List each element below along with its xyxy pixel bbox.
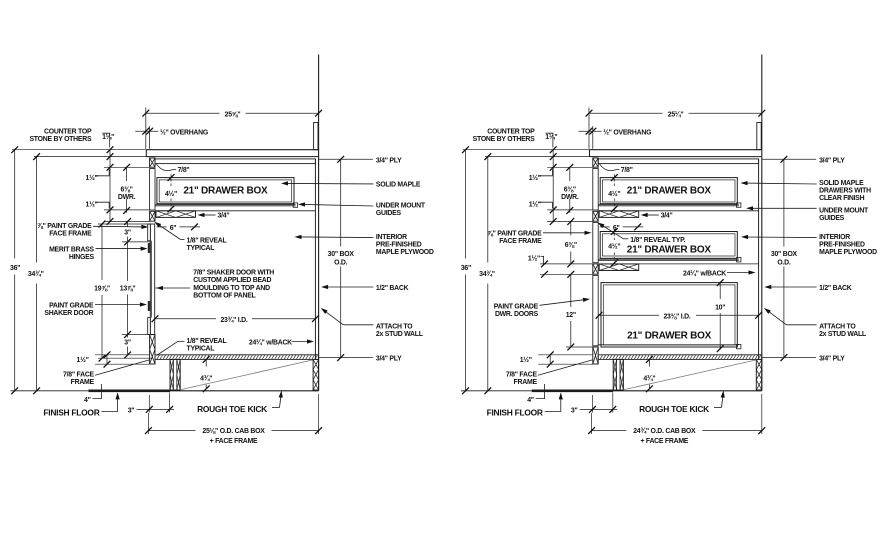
svg-text:MAPLE PLYWOOD: MAPLE PLYWOOD (819, 249, 877, 256)
svg-text:FINISH FLOOR: FINISH FLOOR (487, 407, 543, 417)
right dim: 6" stretcher depth (600, 226, 610, 228)
left dim: 13-7/8" panel dimension line (127, 242, 129, 281)
svg-text:7/8": 7/8" (178, 167, 190, 174)
svg-text:BOTTOM OF PANEL: BOTTOM OF PANEL (193, 293, 255, 300)
svg-text:GUIDES: GUIDES (819, 215, 845, 222)
left cabinet: toe kick front board (170, 359, 180, 390)
svg-text:½" OVERHANG: ½" OVERHANG (603, 129, 651, 137)
svg-text:PRE-FINISHED: PRE-FINISHED (376, 242, 422, 249)
right dim: extension line below top rail (547, 166, 593, 168)
svg-text:FACE FRAME: FACE FRAME (499, 238, 542, 245)
right dim: stack line with ticks (counter/rail heights) (552, 149, 554, 223)
left dim: 23-3/4" I.D. dimension (155, 318, 216, 320)
right dim: 4-3/4" rough toe kick height (648, 359, 650, 366)
left cabinet: door bead moulding bottom block (148, 318, 151, 335)
right cabinet: drawer box 2 under mount guide (598, 258, 739, 260)
svg-text:FRAME: FRAME (514, 379, 538, 386)
right dim: 12" drawer face 3 dimension (570, 274, 572, 307)
svg-text:4½": 4½" (608, 243, 620, 251)
svg-text:PRE-FINISHED: PRE-FINISHED (819, 242, 865, 249)
svg-text:30" BOX: 30" BOX (771, 251, 798, 258)
right cabinet: dust shelf line 1 (598, 210, 758, 212)
svg-text:DWR.: DWR. (561, 194, 579, 201)
svg-text:COUNTER TOP: COUNTER TOP (487, 128, 535, 135)
right cabinet: face frame mid rail (593, 211, 598, 221)
left cabinet: dust shelf line 1 (155, 210, 315, 212)
right cabinet: 6" stretcher 2 with cross bracing (599, 264, 639, 271)
left dim: 1/2" overhang ticks and label (135, 130, 158, 132)
svg-text:+ FACE FRAME: + FACE FRAME (640, 438, 688, 445)
svg-text:GUIDES: GUIDES (376, 210, 402, 217)
left dim: 4-3/4" rough toe kick height (205, 359, 207, 366)
left cabinet: shaker door slab (150, 224, 154, 335)
left dim: 6-3/8" drawer face dimension line (126, 166, 128, 181)
svg-text:4½": 4½" (608, 190, 620, 198)
svg-text:1½": 1½" (529, 200, 541, 208)
svg-text:6": 6" (170, 225, 177, 232)
right dim: extension line face 3 bottom (566, 346, 593, 348)
left cabinet: toe kick rear board (313, 359, 319, 390)
svg-text:36": 36" (461, 265, 471, 272)
left cabinet: drawer box 1 (21") outer (157, 178, 294, 204)
svg-text:3": 3" (571, 407, 578, 414)
left cabinet: finish floor line (11, 390, 89, 392)
svg-text:ATTACH TO: ATTACH TO (819, 323, 856, 330)
left cabinet: drawer box 1 inner wall lines (159, 180, 292, 202)
left cabinet: guide 1 end block (293, 203, 297, 207)
svg-text:1/8" REVEAL: 1/8" REVEAL (187, 338, 227, 345)
left cabinet: counter top slab (146, 150, 318, 157)
left dim: extension line below mid rail (104, 221, 150, 223)
right dim: 25¼" overall width dimension line (589, 112, 663, 114)
svg-text:1½": 1½" (528, 254, 540, 262)
left cabinet: drawer face 1 (inset) (150, 169, 155, 211)
right cabinet: drawer box 1 (21") outer (600, 178, 737, 204)
svg-text:TYPICAL: TYPICAL (187, 245, 215, 252)
svg-text:ROUGH TOE KICK: ROUGH TOE KICK (197, 404, 267, 414)
left cabinet: door hinge block upper (148, 244, 150, 253)
svg-text:6": 6" (613, 225, 620, 232)
right label: 3/4" ply (top) leader (762, 158, 816, 160)
svg-text:STONE BY OTHERS: STONE BY OTHERS (29, 136, 92, 143)
svg-text:COUNTER TOP: COUNTER TOP (44, 128, 92, 135)
right dim: 4-1/2" drawer box 1 height (613, 174, 615, 186)
left cabinet: face frame top rail (7/8") (150, 158, 155, 167)
svg-text:3": 3" (124, 229, 131, 236)
svg-text:O.D.: O.D. (334, 259, 348, 266)
right cabinet: guide 3 end block (737, 344, 741, 348)
left dim: extension line door panel bottom (122, 334, 151, 336)
left dim: 34-3/4" height under counter (36, 157, 38, 263)
right dim: 34-3/4" height under counter (487, 157, 489, 263)
right cabinet: wall line (761, 55, 763, 391)
svg-text:12": 12" (566, 312, 576, 319)
svg-text:25⅛" O.D. CAB BOX: 25⅛" O.D. CAB BOX (202, 428, 265, 435)
right dim: extension line face frame front (overhang) (592, 126, 594, 149)
svg-text:3": 3" (124, 340, 131, 347)
left label: 7/8" face frame rail callout (156, 164, 176, 171)
svg-text:3": 3" (128, 407, 135, 414)
svg-text:PAINT GRADE: PAINT GRADE (494, 303, 539, 310)
right cabinet: drawer box 3 bottom guide (598, 344, 739, 346)
right cabinet: 1/2" back panel (758, 159, 760, 360)
svg-text:1/8" REVEAL: 1/8" REVEAL (187, 237, 227, 244)
left dim: 4-1/2" drawer box 1 height (170, 174, 172, 186)
right cabinet: drawer box 3 (21") outer (601, 283, 737, 347)
svg-text:2x STUD WALL: 2x STUD WALL (376, 331, 423, 338)
svg-text:SHAKER DOOR: SHAKER DOOR (44, 310, 93, 317)
svg-text:UNDER MOUNT: UNDER MOUNT (376, 203, 426, 210)
svg-text:4¾": 4¾" (200, 375, 212, 383)
svg-text:1¼": 1¼" (545, 133, 557, 141)
left dim: 25⅝" overall width dimension line (146, 112, 220, 114)
svg-text:CUSTOM APPLIED BEAD: CUSTOM APPLIED BEAD (193, 277, 271, 284)
svg-text:10": 10" (715, 304, 725, 311)
left dim: 6" stretcher depth (157, 226, 167, 228)
svg-text:13⅞": 13⅞" (120, 286, 136, 293)
right cabinet: face frame top rail (7/8") (593, 158, 598, 167)
left cabinet: wall line (318, 55, 320, 391)
svg-text:⅞" PAINT GRADE: ⅞" PAINT GRADE (37, 223, 92, 230)
right cabinet: face frame rail 3 (593, 264, 598, 274)
svg-text:MERIT BRASS: MERIT BRASS (49, 246, 94, 253)
svg-text:FACE FRAME: FACE FRAME (49, 231, 92, 238)
svg-text:DWR. DOORS: DWR. DOORS (495, 311, 539, 318)
left cabinet: 3/4" ply bottom (hatched) (155, 355, 319, 360)
svg-text:1/8" REVEAL TYP.: 1/8" REVEAL TYP. (630, 237, 685, 244)
svg-text:24¾" O.D. CAB BOX: 24¾" O.D. CAB BOX (633, 427, 696, 435)
left dim: 3" lower rail dimension (127, 335, 129, 338)
svg-text:6⅜": 6⅜" (121, 186, 133, 193)
svg-text:4¾": 4¾" (643, 375, 655, 383)
left cabinet: door hinge block lower (148, 302, 150, 311)
right dim: 6-3/8" drawer face dimension line (569, 166, 571, 181)
svg-text:1½": 1½" (86, 200, 98, 208)
svg-text:½" OVERHANG: ½" OVERHANG (160, 129, 208, 137)
svg-text:3/4": 3/4" (218, 213, 230, 220)
svg-text:3/4" PLY: 3/4" PLY (819, 355, 845, 362)
right cabinet: toe kick rear board (756, 359, 762, 390)
svg-text:7/8" FACE: 7/8" FACE (63, 372, 95, 379)
right dim: 10" drawer box 3 height (719, 283, 721, 299)
right dim: extension line counter left edge (588, 108, 590, 149)
svg-text:⅞" PAINT GRADE: ⅞" PAINT GRADE (487, 230, 542, 237)
svg-text:30" BOX: 30" BOX (328, 251, 355, 258)
svg-text:+ FACE FRAME: + FACE FRAME (210, 438, 258, 445)
right dim: extension line drawer opening bottom (547, 209, 593, 211)
right dim: 30" box O.D. vertical dimension (783, 159, 785, 246)
left dim: extension line y=156.6 to 34-3/4" dim (34, 156, 150, 158)
svg-text:1½": 1½" (520, 356, 532, 364)
right cabinet: dust shelf line 2 (598, 263, 758, 265)
svg-text:SOLID MAPLE: SOLID MAPLE (819, 180, 864, 187)
right dim: extension line y=149.7 to 36" dim (463, 149, 590, 151)
left cabinet: stone backsplash (314, 123, 318, 150)
right dim: 3" toe kick setback (592, 395, 594, 413)
svg-text:21" DRAWER BOX: 21" DRAWER BOX (183, 186, 268, 197)
right cabinet: drawer box 2 inner wall lines (603, 234, 736, 256)
right cabinet: drawer face 1 (inset) (593, 169, 598, 211)
svg-text:24¼" w/BACK: 24¼" w/BACK (683, 270, 726, 278)
svg-text:4": 4" (527, 397, 534, 404)
left dim: 36" overall height (14, 150, 16, 259)
left cabinet: 3/4" ply top stretcher (155, 159, 315, 164)
right cabinet: 6" stretcher with cross bracing (599, 211, 639, 218)
svg-text:6⅜": 6⅜" (564, 186, 576, 193)
svg-text:HINGES: HINGES (69, 254, 95, 261)
svg-text:21" DRAWER BOX: 21" DRAWER BOX (627, 331, 712, 342)
svg-text:CLEAR FINISH: CLEAR FINISH (819, 195, 865, 202)
svg-text:6⅜": 6⅜" (565, 242, 577, 249)
left dim: extension line counter left edge (145, 108, 147, 149)
svg-text:23¾" I.D.: 23¾" I.D. (220, 316, 247, 324)
right label: 7/8" face frame rail callout (599, 164, 619, 171)
svg-text:25¼": 25¼" (668, 111, 684, 119)
right dim: 36" overall height (465, 150, 467, 259)
left cabinet: 1/2" back panel (314, 159, 316, 360)
svg-text:4": 4" (84, 397, 91, 404)
right cabinet: counter top slab (590, 150, 762, 157)
svg-text:7/8" SHAKER DOOR WITH: 7/8" SHAKER DOOR WITH (193, 270, 274, 277)
svg-text:PAINT GRADE: PAINT GRADE (49, 302, 94, 309)
svg-text:4½": 4½" (165, 190, 177, 198)
right label: 3/4" ply (bottom) leader (762, 357, 816, 359)
left label: 3/4" ply (bottom) leader (319, 357, 373, 359)
left dim: extension line door bottom / ply (98, 357, 153, 359)
svg-text:1½": 1½" (77, 356, 89, 364)
right cabinet: 3/4" ply top stretcher (598, 159, 758, 164)
svg-text:DRAWERS WITH: DRAWERS WITH (819, 188, 871, 195)
svg-text:7/8" FACE: 7/8" FACE (506, 372, 538, 379)
left dim: extension line door top (98, 223, 150, 225)
right dim: 23-3/8" I.D. dimension (599, 314, 659, 316)
svg-text:SOLID MAPLE: SOLID MAPLE (376, 181, 421, 188)
left cabinet: 6" stretcher with cross bracing (156, 211, 196, 218)
svg-text:34¾": 34¾" (28, 270, 44, 278)
left dim: extension line y=149.7 to 36" dim (12, 149, 146, 151)
left dim: extension line door panel top (122, 241, 151, 243)
left cabinet: door panel face line (151, 241, 153, 318)
svg-text:25⅝": 25⅝" (225, 112, 241, 119)
left cabinet: rough toe kick diagonal (180, 360, 313, 390)
left dim: extension line face frame front (overhang) (149, 126, 151, 149)
svg-text:3/4": 3/4" (661, 213, 673, 220)
right cabinet: guide 1 end block (737, 203, 741, 207)
right cabinet: rough toe kick diagonal (623, 360, 756, 390)
right cabinet: drawer box 3 inner wall lines (603, 285, 735, 345)
left dim: extension line drawer opening bottom (104, 209, 150, 211)
svg-text:ATTACH TO: ATTACH TO (376, 323, 413, 330)
left label: 3/4" ply (top) leader (319, 158, 373, 160)
right dim: O.D. cab box + face frame overall (591, 413, 593, 434)
left dim: 3" toe kick setback (148, 395, 150, 413)
svg-text:3/4" PLY: 3/4" PLY (376, 355, 402, 362)
svg-text:3/4" PLY: 3/4" PLY (819, 157, 845, 164)
svg-text:3/4" PLY: 3/4" PLY (376, 157, 402, 164)
svg-text:UNDER MOUNT: UNDER MOUNT (819, 207, 869, 214)
svg-text:21" DRAWER BOX: 21" DRAWER BOX (627, 244, 712, 255)
svg-text:DWR.: DWR. (118, 194, 136, 201)
svg-text:19⅞": 19⅞" (94, 286, 110, 293)
svg-text:MAPLE PLYWOOD: MAPLE PLYWOOD (376, 249, 434, 256)
svg-text:INTERIOR: INTERIOR (819, 234, 850, 241)
left cabinet: door bead moulding top block (148, 224, 151, 241)
svg-text:ROUGH TOE KICK: ROUGH TOE KICK (639, 404, 709, 414)
right cabinet: drawer face 2 (inset) (593, 222, 598, 262)
svg-text:36": 36" (10, 265, 20, 272)
right cabinet: drawer box 2 (21") outer (600, 232, 737, 259)
left dim: 30" box O.D. vertical dimension (340, 159, 342, 246)
svg-text:STONE BY OTHERS: STONE BY OTHERS (473, 136, 536, 143)
right dim: extension line y=156.6 to 34-3/4" dim (485, 156, 593, 158)
svg-text:23⅜" I.D.: 23⅜" I.D. (663, 314, 690, 321)
right cabinet: stone backsplash (757, 123, 761, 150)
left cabinet: face frame bottom rail (150, 335, 155, 364)
right cabinet: toe kick front board (613, 359, 623, 390)
right dim: 4-1/2" drawer box 2 height (613, 229, 615, 240)
right cabinet: drawer box 1 under mount guide (598, 204, 739, 206)
svg-text:TYPICAL: TYPICAL (187, 346, 215, 353)
svg-text:1½": 1½" (86, 174, 98, 182)
svg-text:34¾": 34¾" (479, 270, 495, 278)
svg-text:2x STUD WALL: 2x STUD WALL (819, 331, 866, 338)
svg-text:1/2" BACK: 1/2" BACK (819, 285, 852, 292)
right cabinet: finish floor line (461, 390, 532, 392)
svg-text:24¼" w/BACK: 24¼" w/BACK (249, 339, 292, 347)
svg-text:1¼": 1¼" (102, 133, 114, 141)
left dim: O.D. cab box + face frame overall (147, 413, 149, 434)
right cabinet: face frame bottom rail (593, 347, 598, 364)
svg-text:MOULDING TO TOP AND: MOULDING TO TOP AND (193, 285, 270, 292)
right cabinet: guide 2 end block (737, 258, 741, 262)
svg-text:O.D.: O.D. (777, 259, 791, 266)
right dim: extension line below mid rail (547, 221, 593, 223)
svg-text:INTERIOR: INTERIOR (376, 234, 407, 241)
left cabinet: face frame mid rail (150, 211, 155, 221)
right dim: 1/2" overhang ticks and label (579, 130, 602, 132)
svg-text:1/2" BACK: 1/2" BACK (376, 285, 409, 292)
right cabinet: 3/4" ply bottom (hatched) (598, 355, 762, 360)
left dim: 19-7/8" door dimension line (101, 224, 103, 280)
right dim: 6-3/8" drawer face 2 dimension (570, 222, 572, 236)
svg-text:7/8": 7/8" (621, 167, 633, 174)
left cabinet: drawer box 1 under mount guide (155, 204, 296, 206)
svg-text:1½": 1½" (529, 174, 541, 182)
right cabinet: drawer face 3 (inset) (593, 275, 598, 345)
svg-text:21" DRAWER BOX: 21" DRAWER BOX (627, 186, 712, 197)
svg-text:FRAME: FRAME (71, 379, 95, 386)
right cabinet: drawer box 1 inner wall lines (603, 180, 736, 202)
left dim: 3" upper rail-to-panel dimension (127, 222, 129, 228)
svg-text:FINISH FLOOR: FINISH FLOOR (43, 407, 99, 417)
left dim: stack line with ticks (counter/rail heights) (109, 149, 111, 223)
left dim: extension line below top rail (104, 166, 150, 168)
